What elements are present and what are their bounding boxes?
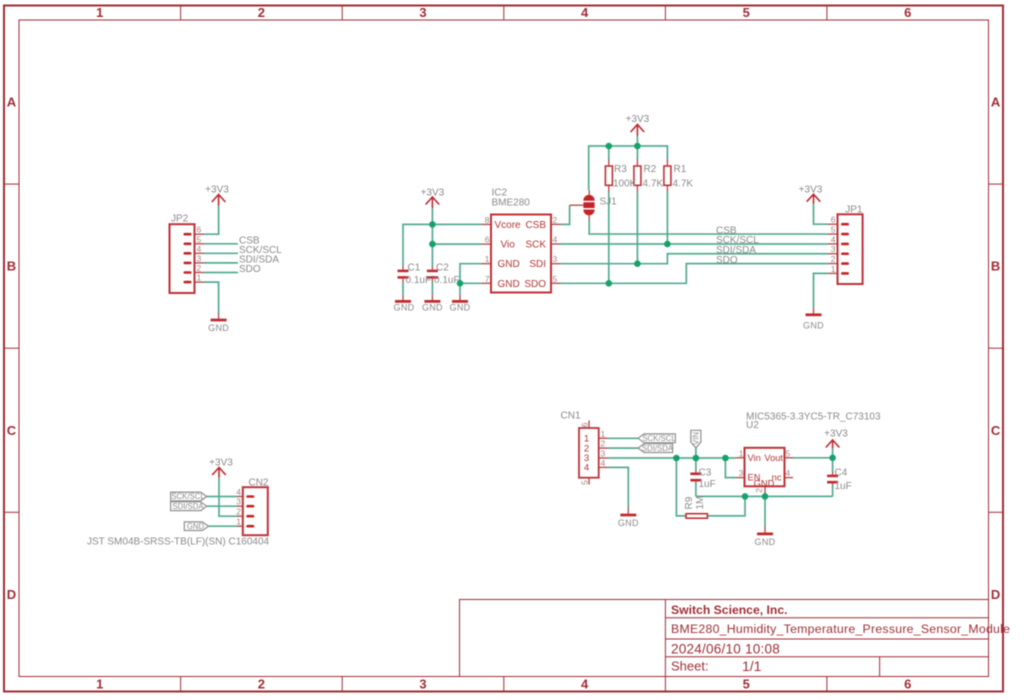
svg-text:2: 2: [831, 254, 836, 264]
svg-text:1uF: 1uF: [699, 479, 716, 490]
svg-text:GND: GND: [498, 279, 520, 290]
svg-text:GND: GND: [803, 321, 824, 331]
svg-text:6: 6: [485, 235, 490, 245]
svg-text:+3V3: +3V3: [626, 114, 650, 125]
svg-text:1/1: 1/1: [742, 658, 762, 674]
svg-text:D: D: [7, 587, 16, 602]
svg-text:GND: GND: [422, 303, 443, 313]
svg-text:SCK/SCL: SCK/SCL: [642, 434, 676, 443]
svg-text:SDI/SDA: SDI/SDA: [172, 502, 204, 511]
svg-text:C2: C2: [436, 263, 449, 274]
svg-text:GND: GND: [498, 259, 520, 270]
svg-text:MIC5365-3.3YC5-TR_C73103: MIC5365-3.3YC5-TR_C73103: [746, 412, 881, 423]
svg-text:4: 4: [553, 235, 558, 245]
svg-text:GND: GND: [187, 522, 205, 531]
svg-text:+3V3: +3V3: [205, 184, 229, 195]
svg-text:1M: 1M: [695, 496, 706, 510]
svg-text:3: 3: [197, 253, 202, 263]
svg-text:100K: 100K: [613, 179, 637, 190]
svg-text:JP1: JP1: [845, 204, 863, 215]
svg-text:C4: C4: [835, 467, 848, 478]
svg-text:1uF: 1uF: [835, 481, 852, 492]
svg-text:3: 3: [419, 5, 426, 20]
svg-text:2: 2: [258, 5, 265, 20]
svg-text:2: 2: [197, 263, 202, 273]
svg-text:D: D: [991, 587, 1000, 602]
svg-text:SDO: SDO: [524, 279, 546, 290]
svg-text:1: 1: [601, 429, 606, 439]
svg-text:GND: GND: [394, 303, 415, 313]
svg-text:C: C: [7, 423, 17, 438]
svg-text:U2: U2: [746, 420, 759, 431]
svg-text:3: 3: [419, 677, 426, 692]
svg-text:1: 1: [831, 264, 836, 274]
svg-text:0.1uF: 0.1uF: [434, 275, 460, 286]
svg-text:A: A: [7, 95, 17, 110]
svg-text:Vout: Vout: [764, 453, 783, 463]
svg-text:Vcore: Vcore: [495, 220, 522, 231]
svg-text:7: 7: [485, 274, 490, 284]
svg-text:1: 1: [236, 517, 241, 527]
svg-text:2: 2: [754, 488, 764, 493]
svg-text:B: B: [7, 259, 16, 274]
svg-text:SCK: SCK: [525, 240, 546, 251]
svg-text:+3V3: +3V3: [824, 429, 848, 440]
svg-text:R9: R9: [684, 496, 695, 509]
svg-text:1: 1: [96, 5, 103, 20]
svg-text:0.1uF: 0.1uF: [406, 275, 432, 286]
svg-text:Switch Science, Inc.: Switch Science, Inc.: [671, 603, 788, 617]
svg-text:SCK/SCL: SCK/SCL: [171, 492, 205, 501]
svg-text:5: 5: [786, 448, 791, 458]
svg-text:1: 1: [485, 254, 490, 264]
svg-text:5: 5: [743, 5, 750, 20]
svg-text:6: 6: [579, 422, 589, 427]
svg-text:4: 4: [831, 234, 836, 244]
svg-text:GND: GND: [754, 479, 775, 489]
svg-text:+3V3: +3V3: [421, 187, 445, 198]
svg-text:2: 2: [553, 215, 558, 225]
svg-text:2: 2: [236, 507, 241, 517]
svg-text:JP2: JP2: [171, 214, 189, 225]
svg-text:SDI/SDA: SDI/SDA: [642, 444, 674, 453]
svg-text:4: 4: [581, 677, 589, 692]
svg-text:4: 4: [584, 463, 589, 474]
svg-text:CSB: CSB: [525, 220, 546, 231]
svg-text:BME280_Humidity_Temperature_Pr: BME280_Humidity_Temperature_Pressure_Sen…: [671, 622, 1010, 636]
svg-text:8: 8: [485, 215, 490, 225]
svg-text:3: 3: [236, 497, 241, 507]
svg-text:Vin: Vin: [748, 453, 761, 463]
svg-text:R3: R3: [614, 164, 627, 175]
svg-text:2: 2: [258, 677, 265, 692]
svg-text:1: 1: [739, 448, 744, 458]
svg-text:BME280: BME280: [492, 198, 531, 209]
svg-text:SJ1: SJ1: [600, 197, 618, 208]
svg-text:B: B: [991, 259, 1000, 274]
svg-text:Sheet:: Sheet:: [671, 659, 709, 674]
svg-text:4: 4: [786, 468, 791, 478]
svg-text:1: 1: [96, 677, 103, 692]
svg-text:3: 3: [831, 244, 836, 254]
svg-text:Vio: Vio: [501, 240, 516, 251]
svg-text:GND: GND: [208, 323, 229, 333]
svg-text:GND: GND: [618, 518, 639, 528]
svg-text:JST SM04B-SRSS-TB(LF)(SN) C160: JST SM04B-SRSS-TB(LF)(SN) C160404: [87, 537, 270, 548]
svg-text:3: 3: [739, 468, 744, 478]
svg-text:A: A: [991, 95, 1001, 110]
svg-text:6: 6: [904, 5, 911, 20]
svg-text:+3V3: +3V3: [799, 185, 823, 196]
svg-text:C: C: [991, 423, 1001, 438]
svg-text:6: 6: [904, 677, 911, 692]
svg-text:5: 5: [831, 225, 836, 235]
svg-text:2: 2: [601, 439, 606, 449]
svg-text:GND: GND: [450, 303, 471, 313]
svg-text:5: 5: [553, 274, 558, 284]
svg-text:5: 5: [743, 677, 750, 692]
svg-text:VIN: VIN: [691, 432, 700, 445]
svg-text:5: 5: [197, 234, 202, 244]
svg-text:4: 4: [601, 458, 606, 468]
svg-text:CN2: CN2: [248, 478, 268, 489]
svg-text:CN1: CN1: [561, 411, 581, 422]
svg-text:3: 3: [553, 254, 558, 264]
svg-text:C3: C3: [699, 467, 712, 478]
svg-text:1: 1: [197, 273, 202, 283]
svg-text:SDI: SDI: [529, 259, 546, 270]
svg-text:6: 6: [831, 215, 836, 225]
svg-text:C1: C1: [408, 263, 421, 274]
svg-text:GND: GND: [755, 537, 776, 547]
svg-text:4: 4: [236, 487, 241, 497]
svg-text:4: 4: [197, 244, 202, 254]
svg-text:R1: R1: [674, 164, 687, 175]
svg-text:4.7K: 4.7K: [643, 179, 664, 190]
svg-text:4.7K: 4.7K: [673, 179, 694, 190]
svg-text:6: 6: [197, 225, 202, 235]
svg-text:4: 4: [581, 5, 589, 20]
svg-text:5: 5: [579, 480, 589, 485]
svg-text:2024/06/10 10:08: 2024/06/10 10:08: [671, 642, 780, 657]
svg-text:+3V3: +3V3: [209, 458, 233, 469]
svg-text:SDO: SDO: [239, 264, 261, 275]
svg-text:R2: R2: [644, 164, 657, 175]
svg-text:SDO: SDO: [716, 255, 738, 266]
